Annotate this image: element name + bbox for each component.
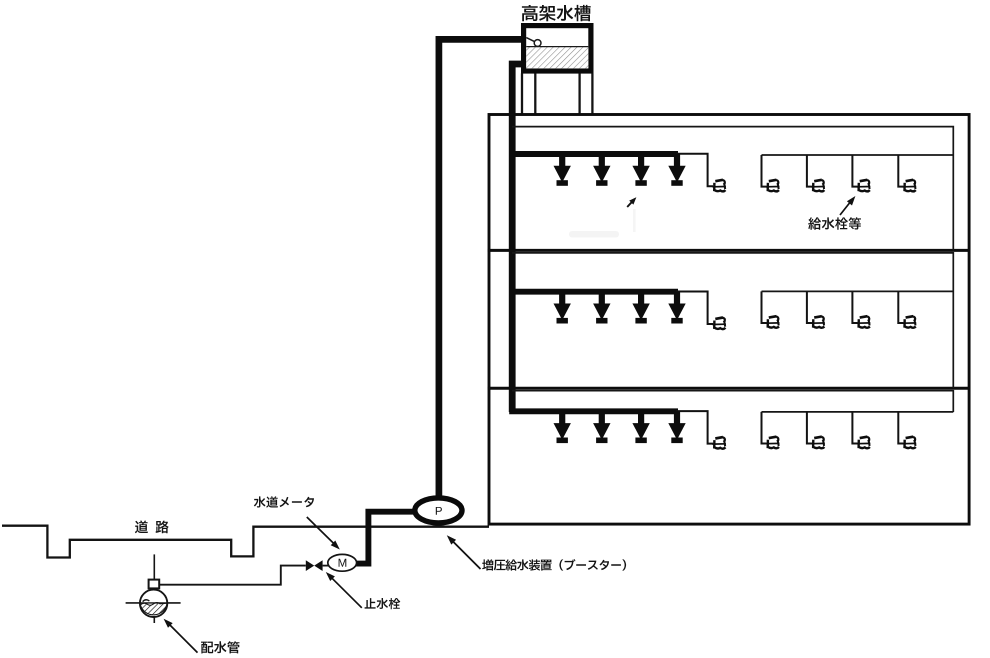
distribution main horizontal axis line	[126, 602, 181, 604]
riser pipe pump-to-tank	[439, 39, 522, 497]
floor 1 faucet at pipe end	[715, 180, 723, 181]
arrow to main	[169, 624, 198, 653]
floor 3 wall faucet 1	[769, 437, 777, 438]
floor 2 drop pipe 2	[807, 291, 812, 323]
float ball	[534, 40, 541, 47]
letter P	[436, 507, 442, 515]
floor 3 outlet arrow 4	[674, 411, 680, 423]
floor 1 outlet arrow 4	[674, 154, 680, 166]
arrow to meter	[307, 517, 335, 545]
floor 3 thick branch pipe	[509, 408, 678, 414]
floor 1 faucet header line	[762, 154, 954, 156]
arrow to valve	[331, 577, 362, 608]
floor 3 faucet at pipe end	[715, 437, 723, 438]
booster pump ellipse P	[415, 498, 462, 523]
floor 3 outlet arrow 2	[599, 411, 605, 423]
floor 3 wall faucet 2	[814, 437, 822, 438]
floor 2 outlet arrow 2	[599, 292, 605, 304]
diameter line over hatch	[140, 602, 167, 604]
float valve arm	[526, 38, 535, 42]
floor 3 outlet arrow 1	[559, 411, 565, 423]
underground service pipe from main to stop valve	[160, 566, 306, 585]
floor 2 thick branch pipe	[509, 289, 678, 295]
label: road 道路	[135, 521, 169, 534]
floor 2 wall faucet 3	[860, 316, 868, 317]
floor 2 wall faucet 2	[814, 316, 822, 317]
floor 1 thick branch pipe	[509, 151, 678, 157]
tank water surface line	[526, 46, 588, 48]
floor 1 wall faucet 3	[860, 180, 868, 181]
floor 2 drop pipe 3	[852, 291, 857, 323]
floor 1 inner ceiling line	[512, 127, 953, 251]
floor 2 drop pipe 4	[898, 291, 903, 323]
floor 1 wall faucet 4	[906, 180, 914, 181]
corporation stop box on main	[149, 580, 160, 589]
floor 2 outlet arrow 1	[559, 292, 565, 304]
floor 1 wall faucet 1	[769, 180, 777, 181]
label: supply faucets 給水栓等	[808, 217, 861, 230]
label: elevated water tank 高架水槽	[522, 5, 591, 21]
floor divider 1	[488, 249, 969, 252]
floor 3 inner ceiling line	[512, 391, 953, 412]
floor 1 pipe-end elbow to faucet	[676, 154, 713, 187]
label: booster unit 増圧給水装置（ブースター）	[482, 559, 626, 571]
floor 2 pipe-end elbow to faucet	[676, 292, 713, 325]
floor 3 drop pipe 3	[852, 412, 857, 444]
floor 3 wall faucet 3	[860, 437, 868, 438]
floor 3 outlet arrow 3	[638, 411, 644, 423]
floor 2 drop pipe 1	[762, 291, 767, 323]
floor 1 outlet arrow 3	[638, 154, 644, 166]
floor 1 wall faucet 2	[814, 180, 822, 181]
floor 2 outlet arrow 4	[674, 292, 680, 304]
floor divider 2	[488, 387, 969, 390]
floor 3 faucet header line	[762, 411, 954, 413]
label: water meter 水道メータ	[254, 496, 314, 507]
distribution main vertical axis line	[153, 554, 155, 623]
stop valve bowtie 止水栓	[306, 560, 314, 571]
floor 3 pipe-end elbow to faucet	[676, 411, 713, 444]
floor 2 outlet arrow 3	[638, 292, 644, 304]
floor 2 faucet at pipe end	[715, 318, 723, 319]
elevated tank body	[524, 26, 591, 71]
floor 2 faucet header line	[762, 290, 954, 292]
letter M	[339, 559, 347, 567]
road ground profile with gutters	[2, 526, 489, 558]
floor 2 wall faucet 4	[906, 316, 914, 317]
distribution main circle 配水管	[140, 590, 167, 617]
water in main (hatched lower half)	[140, 603, 167, 615]
floor 1 outlet arrow 1	[559, 154, 565, 166]
ghost smudge	[569, 231, 619, 238]
floor 1 drop pipe 3	[852, 155, 857, 187]
label: stop valve 止水栓	[365, 598, 401, 609]
tank support legs	[522, 73, 592, 114]
floor 2 wall faucet 1	[769, 316, 777, 317]
tank water hatch	[526, 47, 588, 68]
thick pipe meter to pump	[356, 512, 414, 564]
floor 3 drop pipe 4	[898, 412, 903, 444]
tank outlet pipe down to floors	[512, 64, 521, 412]
building outline	[489, 115, 969, 525]
floor 2 inner ceiling line	[512, 253, 953, 388]
arrow to pump	[452, 540, 481, 569]
floor 3 wall faucet 4	[906, 437, 914, 438]
label: distribution main 配水管	[201, 641, 240, 653]
floor 3 drop pipe 1	[762, 412, 767, 444]
floor 1 drop pipe 1	[762, 155, 767, 187]
floor 1 outlet arrow 2	[599, 154, 605, 166]
floor 3 drop pipe 2	[807, 412, 812, 444]
floor 1 drop pipe 2	[807, 155, 812, 187]
arrow to faucet	[840, 202, 851, 215]
small wave above water line	[143, 600, 150, 602]
floor 1 drop pipe 4	[898, 155, 903, 187]
line valve to meter	[323, 565, 328, 567]
flow annotation arrow floor1	[627, 201, 632, 207]
water meter ellipse M	[328, 554, 357, 571]
